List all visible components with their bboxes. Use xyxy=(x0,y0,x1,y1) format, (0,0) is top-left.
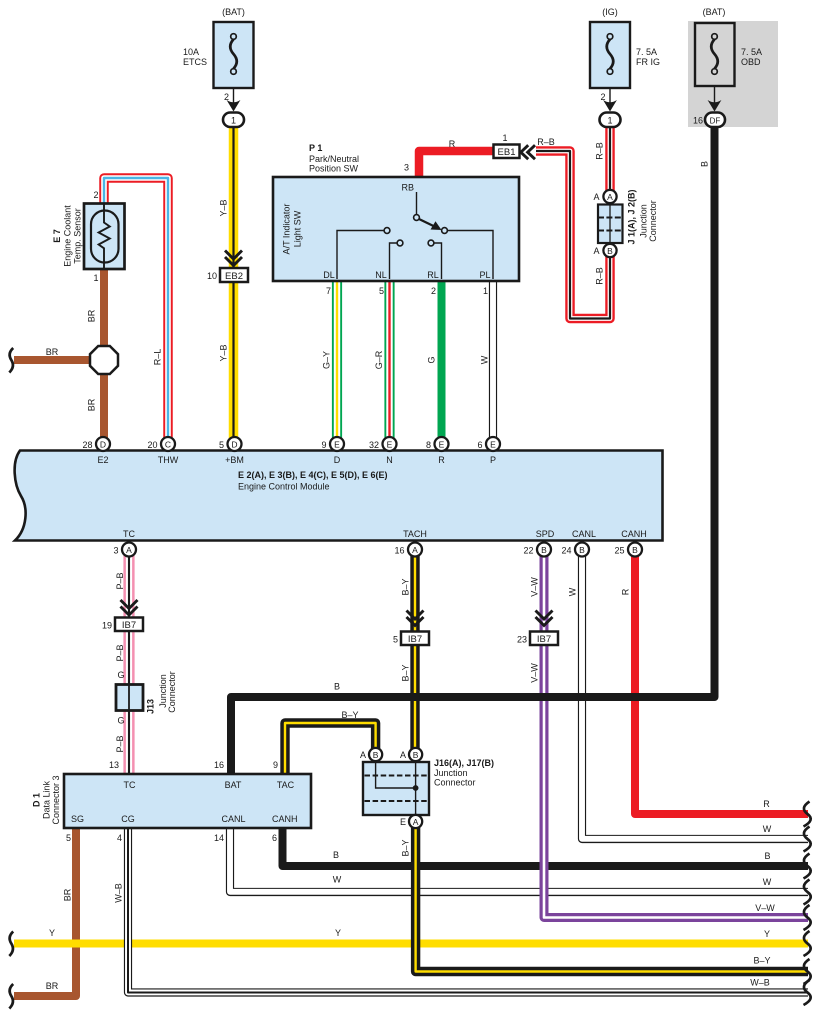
svg-text:J13: J13 xyxy=(146,699,156,714)
switch pivot contact xyxy=(414,215,420,221)
svg-text:Connector: Connector xyxy=(167,671,177,713)
svg-text:E: E xyxy=(439,440,445,450)
svg-text:9: 9 xyxy=(273,760,278,770)
svg-text:23: 23 xyxy=(517,635,527,645)
connector oval 1 (IG) xyxy=(600,113,621,128)
svg-text:B: B xyxy=(333,850,339,860)
wire G-Y (P1 DL pin7 down to ECM pin9 D) xyxy=(332,279,342,440)
svg-text:A: A xyxy=(607,192,613,202)
svg-text:BAT: BAT xyxy=(225,780,242,790)
ECM pin 25(B) xyxy=(614,543,642,557)
splice EB2 xyxy=(220,268,248,282)
svg-text:Y: Y xyxy=(764,929,770,939)
svg-text:B–Y: B–Y xyxy=(341,710,358,720)
svg-text:V–W: V–W xyxy=(530,577,540,597)
wire W-B (D1 CG pin4 down then right to edge) xyxy=(128,826,808,993)
svg-text:16: 16 xyxy=(214,760,224,770)
svg-text:B: B xyxy=(334,682,340,692)
wire R-B (IG fuse oval down to J1 pin A) xyxy=(605,125,615,192)
svg-text:B: B xyxy=(607,246,613,256)
ECM pin 16(A) xyxy=(394,543,422,557)
break squiggle right W-B xyxy=(804,980,811,1005)
svg-text:CANH: CANH xyxy=(272,814,298,824)
wire P-B (ECM TC pin3 down through IB7 and J13 to D1 TC pin13) xyxy=(123,553,134,776)
svg-text:1: 1 xyxy=(607,116,612,126)
svg-text:IB7: IB7 xyxy=(408,634,422,645)
ECM pin 6(E) xyxy=(477,437,500,451)
svg-text:G: G xyxy=(427,356,437,363)
wire W (ECM CANL pin24 to right edge) xyxy=(582,553,808,839)
svg-text:D: D xyxy=(231,440,237,450)
break squiggle right W2 xyxy=(804,880,811,905)
svg-text:A: A xyxy=(400,750,406,760)
svg-text:A: A xyxy=(126,545,132,555)
svg-text:EB1: EB1 xyxy=(498,147,516,158)
chevron arrow IB7-5 xyxy=(407,611,424,626)
svg-text:3: 3 xyxy=(404,163,409,173)
svg-text:P 1: P 1 xyxy=(309,143,322,153)
svg-text:20: 20 xyxy=(147,440,157,450)
svg-text:D: D xyxy=(100,440,106,450)
fuse 10A ETCS xyxy=(183,7,254,88)
svg-text:E: E xyxy=(490,440,496,450)
svg-text:Temp. Sensor: Temp. Sensor xyxy=(73,208,83,264)
svg-text:W: W xyxy=(480,355,490,364)
svg-text:5: 5 xyxy=(379,286,384,296)
E7 Engine Coolant Temp. Sensor xyxy=(52,190,125,283)
wire B-Y (D1 TAC pin9 up and right to J16 pin B left) xyxy=(285,723,376,776)
svg-text:Engine Coolant: Engine Coolant xyxy=(63,205,73,267)
svg-text:SPD: SPD xyxy=(536,529,555,539)
svg-text:TC: TC xyxy=(124,780,136,790)
wire B-Y (J16 pin E down then right to edge) xyxy=(416,815,808,972)
svg-text:A: A xyxy=(412,545,418,555)
svg-text:B: B xyxy=(700,161,710,167)
fuse 7.5A FR IG xyxy=(590,7,660,88)
svg-text:Y–B: Y–B xyxy=(219,199,229,216)
break squiggle left BR bottom xyxy=(9,984,13,1009)
PL branch line xyxy=(448,231,494,280)
wire W (P1 PL pin1 down to ECM pin6 P) xyxy=(489,279,497,440)
svg-text:TACH: TACH xyxy=(403,529,427,539)
svg-text:W: W xyxy=(333,875,342,885)
svg-text:W: W xyxy=(568,587,578,596)
P1 Park/Neutral Position SW box xyxy=(273,143,519,281)
svg-text:EB2: EB2 xyxy=(225,271,243,282)
svg-text:Position SW: Position SW xyxy=(309,164,359,174)
chevron arrow IB7-19 xyxy=(121,600,138,615)
svg-text:25: 25 xyxy=(614,546,624,556)
ECM pin 32(E) xyxy=(369,437,397,451)
octagon junction xyxy=(90,346,118,374)
chevron arrow EB1 (points left) xyxy=(521,145,535,159)
connector oval 1 (ETCS) xyxy=(223,113,244,128)
svg-text:ETCS: ETCS xyxy=(183,57,207,67)
wire Y (horizontal bus to right edge) xyxy=(14,940,808,948)
svg-text:7. 5A: 7. 5A xyxy=(636,47,657,57)
svg-text:SG: SG xyxy=(71,814,84,824)
svg-text:Connector 3: Connector 3 xyxy=(51,775,61,824)
splice IB7-5 xyxy=(401,632,429,646)
svg-text:DF: DF xyxy=(710,117,721,126)
svg-text:C: C xyxy=(165,440,171,450)
svg-text:PL: PL xyxy=(479,270,490,280)
svg-text:5: 5 xyxy=(393,635,398,645)
wire R-B (J1 pin B down, left, up to EB1 chevron) xyxy=(536,151,610,319)
break squiggle right V-W xyxy=(804,905,811,930)
fuse lead wire xyxy=(609,88,611,103)
ECM pin 9(E) xyxy=(321,437,344,451)
wire R (ECM CANH pin25 to right edge) xyxy=(635,553,808,814)
svg-text:9: 9 xyxy=(321,440,326,450)
svg-text:B–Y: B–Y xyxy=(401,664,411,681)
J1(A) J2(B) junction connector xyxy=(593,189,658,257)
svg-text:IB7: IB7 xyxy=(537,634,551,645)
svg-text:CANL: CANL xyxy=(572,529,596,539)
wire B (D1 CANH pin6 to right edge) xyxy=(283,826,809,866)
ECM pin 20(C) xyxy=(147,437,175,451)
svg-text:THW: THW xyxy=(158,455,179,465)
svg-text:P: P xyxy=(490,455,496,465)
svg-text:E 2(A), E 3(B), E 4(C), E 5(D): E 2(A), E 3(B), E 4(C), E 5(D), E 6(E) xyxy=(238,470,388,480)
svg-text:E: E xyxy=(400,817,406,827)
svg-text:32: 32 xyxy=(369,440,379,450)
svg-text:TC: TC xyxy=(123,529,135,539)
svg-text:W–B: W–B xyxy=(750,978,770,988)
fuse 7.5A OBD xyxy=(695,7,762,86)
svg-text:B: B xyxy=(764,851,770,861)
svg-text:G: G xyxy=(117,670,124,680)
svg-text:J16(A), J17(B): J16(A), J17(B) xyxy=(434,758,494,768)
svg-text:R–B: R–B xyxy=(595,267,605,285)
svg-text:W: W xyxy=(763,824,772,834)
svg-text:1: 1 xyxy=(93,273,98,283)
switch common line from RB xyxy=(416,192,418,214)
wire R (EB1 to P1 RB terminal pin3) xyxy=(419,151,494,179)
svg-text:Connector: Connector xyxy=(648,200,658,242)
svg-text:RL: RL xyxy=(427,270,439,280)
svg-text:Light SW: Light SW xyxy=(293,210,303,247)
svg-text:+BM: +BM xyxy=(225,455,244,465)
svg-text:B–Y: B–Y xyxy=(401,578,411,595)
ECM pin 24(B) xyxy=(561,543,589,557)
svg-text:24: 24 xyxy=(561,546,571,556)
svg-text:16: 16 xyxy=(693,116,703,126)
svg-text:1: 1 xyxy=(483,286,488,296)
svg-text:D: D xyxy=(334,455,341,465)
svg-text:10: 10 xyxy=(207,271,217,281)
svg-text:A: A xyxy=(593,246,599,256)
svg-text:E: E xyxy=(334,440,340,450)
wire BR (D1 SG pin5 down and left to break) xyxy=(14,826,76,996)
svg-text:G: G xyxy=(117,716,124,726)
J16(A) J17(B) junction connector xyxy=(360,748,494,828)
svg-text:J 1(A), J 2(B): J 1(A), J 2(B) xyxy=(627,189,637,244)
svg-text:BR: BR xyxy=(87,398,97,411)
wire BR (octagon down to ECM pin28 E2) xyxy=(100,372,108,440)
svg-text:Junction: Junction xyxy=(434,768,468,778)
svg-text:16: 16 xyxy=(394,546,404,556)
svg-text:A/T Indicator: A/T Indicator xyxy=(282,204,292,255)
svg-text:B: B xyxy=(632,545,638,555)
J13 junction connector xyxy=(116,671,177,714)
svg-text:R: R xyxy=(438,455,445,465)
svg-text:P–B: P–B xyxy=(115,572,125,589)
svg-text:R: R xyxy=(763,799,770,809)
svg-text:(IG): (IG) xyxy=(602,7,618,17)
svg-text:G–Y: G–Y xyxy=(322,351,332,369)
svg-text:A: A xyxy=(413,817,419,827)
wire G-R (P1 NL pin5 down to ECM pin32 N) xyxy=(384,279,394,440)
svg-text:Y: Y xyxy=(335,928,341,938)
wire B (OBD fuse DF down, left, down to D1 BAT pin16) xyxy=(231,127,715,776)
DL branch line and contact xyxy=(337,231,384,280)
svg-text:A: A xyxy=(593,192,599,202)
svg-text:(BAT): (BAT) xyxy=(222,7,245,17)
svg-text:R–B: R–B xyxy=(595,142,605,160)
svg-text:B–Y: B–Y xyxy=(753,956,770,966)
wire B-Y (ECM TACH pin16 down through IB7 to J16 connector) xyxy=(410,553,419,750)
svg-text:Engine Control Module: Engine Control Module xyxy=(238,482,330,492)
chevron arrow EB2 xyxy=(225,251,242,266)
svg-text:B: B xyxy=(579,545,585,555)
svg-text:IB7: IB7 xyxy=(122,620,136,631)
svg-text:(BAT): (BAT) xyxy=(703,7,726,17)
ECM pin 5(D) xyxy=(219,437,242,451)
svg-text:Y–B: Y–B xyxy=(219,344,229,361)
switch arm with arrowhead xyxy=(419,219,435,227)
connector oval DF xyxy=(705,113,725,128)
svg-text:1: 1 xyxy=(231,116,236,126)
svg-text:E 7: E 7 xyxy=(52,229,62,243)
svg-text:V–W: V–W xyxy=(755,903,775,913)
svg-text:V–W: V–W xyxy=(530,663,540,683)
break squiggle right W xyxy=(804,827,811,852)
svg-text:3: 3 xyxy=(113,546,118,556)
D1 Data Link Connector 3 xyxy=(32,774,312,828)
chevron arrow IB7-23 xyxy=(536,611,553,626)
svg-text:OBD: OBD xyxy=(741,57,761,67)
svg-text:2: 2 xyxy=(431,286,436,296)
svg-text:BR: BR xyxy=(46,347,59,357)
svg-text:E: E xyxy=(387,440,393,450)
svg-text:5: 5 xyxy=(219,440,224,450)
svg-text:R–L: R–L xyxy=(153,349,163,366)
svg-text:28: 28 xyxy=(82,440,92,450)
svg-text:7: 7 xyxy=(326,286,331,296)
svg-text:Connector: Connector xyxy=(434,778,476,788)
svg-text:B–Y: B–Y xyxy=(401,839,411,856)
wire Y-B (ETCS fuse oval down through EB2 to ECM pin5 +BM) xyxy=(229,125,239,440)
svg-text:Data Link: Data Link xyxy=(42,780,52,819)
svg-text:Park/Neutral: Park/Neutral xyxy=(309,154,359,164)
svg-text:BR: BR xyxy=(87,309,97,322)
svg-text:TAC: TAC xyxy=(277,780,295,790)
svg-text:CG: CG xyxy=(121,814,135,824)
fuse lead wire xyxy=(714,86,716,103)
svg-text:G–R: G–R xyxy=(374,350,384,369)
svg-text:B: B xyxy=(413,750,419,760)
splice IB7-23 xyxy=(530,632,558,646)
ECM pin 28(D) xyxy=(82,437,110,451)
break squiggle right R xyxy=(804,802,811,827)
svg-text:Junction: Junction xyxy=(639,204,649,238)
svg-text:2: 2 xyxy=(600,92,605,102)
svg-text:Y: Y xyxy=(49,928,55,938)
wire V-W (ECM SPD pin22 down to right edge) xyxy=(544,553,808,918)
svg-text:14: 14 xyxy=(214,833,224,843)
svg-text:19: 19 xyxy=(102,621,112,631)
svg-text:5: 5 xyxy=(66,833,71,843)
wire BR (E7 pin1 to octagon junction) xyxy=(100,267,108,348)
break squiggle left BR xyxy=(9,348,13,373)
contact circle PL arm xyxy=(442,228,448,234)
svg-text:R–B: R–B xyxy=(537,137,555,147)
svg-text:1: 1 xyxy=(502,133,507,143)
RL branch line and contact xyxy=(434,243,442,279)
svg-text:B: B xyxy=(373,750,379,760)
break squiggle right B-Y xyxy=(804,959,811,984)
svg-text:FR IG: FR IG xyxy=(636,57,660,67)
wire BR (octagon left branch to break) xyxy=(14,356,92,364)
svg-text:P–B: P–B xyxy=(115,735,125,752)
svg-text:6: 6 xyxy=(272,833,277,843)
wire W (D1 CANL pin14 to right edge) xyxy=(230,826,808,892)
svg-text:DL: DL xyxy=(323,270,335,280)
svg-text:CANH: CANH xyxy=(621,529,647,539)
svg-text:10A: 10A xyxy=(183,47,199,57)
svg-text:13: 13 xyxy=(109,760,119,770)
svg-text:NL: NL xyxy=(375,270,387,280)
break squiggle right B xyxy=(804,854,811,879)
svg-text:B: B xyxy=(541,545,547,555)
ECM pin 8(E) xyxy=(426,437,449,451)
svg-text:CANL: CANL xyxy=(221,814,245,824)
svg-text:2: 2 xyxy=(93,190,98,200)
wire G (P1 RL pin2 down to ECM pin8 R) xyxy=(438,279,446,440)
svg-text:6: 6 xyxy=(477,440,482,450)
svg-text:A: A xyxy=(360,750,366,760)
NL branch line and contact xyxy=(390,243,398,279)
break squiggle right Y xyxy=(804,931,811,956)
svg-text:P–B: P–B xyxy=(115,644,125,661)
svg-text:BR: BR xyxy=(63,888,73,901)
svg-text:W: W xyxy=(763,877,772,887)
svg-text:D 1: D 1 xyxy=(32,793,42,807)
svg-text:R: R xyxy=(621,588,631,595)
svg-text:8: 8 xyxy=(426,440,431,450)
svg-text:RB: RB xyxy=(401,183,414,193)
arrow into connector 1 xyxy=(603,100,617,112)
ECM pin 3(A) xyxy=(113,543,136,557)
svg-text:W–B: W–B xyxy=(114,883,124,903)
arrow into connector 1 xyxy=(227,100,241,112)
ECM pin 22(B) xyxy=(523,543,551,557)
svg-text:N: N xyxy=(386,455,393,465)
fuse lead wire xyxy=(233,88,235,103)
svg-text:4: 4 xyxy=(117,833,122,843)
gray OBD background panel xyxy=(688,21,778,127)
splice IB7-19 xyxy=(115,618,143,632)
ECM box E2-E6 Engine Control Module xyxy=(15,451,663,541)
svg-text:7. 5A: 7. 5A xyxy=(741,47,762,57)
svg-text:R: R xyxy=(449,139,456,149)
arrow into connector DF xyxy=(708,100,722,112)
svg-text:BR: BR xyxy=(46,981,59,991)
svg-text:2: 2 xyxy=(224,92,229,102)
svg-text:E2: E2 xyxy=(97,455,108,465)
break squiggle left Y xyxy=(9,932,13,957)
svg-text:22: 22 xyxy=(523,546,533,556)
wire R-L (E7 pin2 up, right, down to ECM pin20 THW) xyxy=(104,178,168,440)
